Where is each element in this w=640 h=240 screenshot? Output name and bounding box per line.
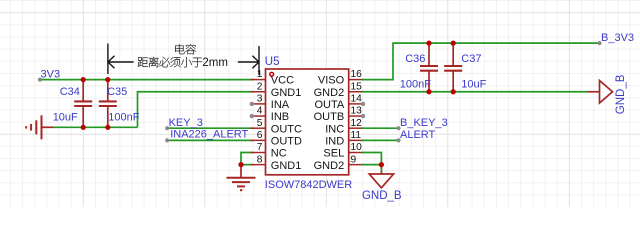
svg-text:VISO: VISO: [318, 75, 345, 87]
junction pin8/ground: [238, 162, 243, 167]
pin 16 (VISO) stub: [349, 79, 364, 81]
ground symbol (left, rotated): [26, 115, 53, 139]
svg-text:15: 15: [351, 81, 363, 92]
unconnected pin 13 dot: [361, 114, 365, 118]
svg-text:GND_B: GND_B: [362, 190, 402, 202]
svg-text:16: 16: [351, 69, 363, 80]
op-amp/isolator IC U5 body: [266, 69, 349, 175]
svg-text:INA226_ALERT: INA226_ALERT: [170, 129, 248, 141]
unconnected pin 3 dot: [250, 102, 254, 106]
pin 6 (OUTD) stub: [251, 139, 266, 141]
wire pin 7 NC loop to pin 8: [241, 153, 254, 165]
svg-text:7: 7: [257, 142, 263, 153]
svg-text:1: 1: [257, 69, 263, 80]
wire net KEY_3 to pin 5: [167, 127, 253, 129]
svg-text:C34: C34: [60, 86, 80, 98]
svg-text:2mm: 2mm: [202, 57, 228, 69]
svg-text:6: 6: [257, 130, 263, 141]
svg-text:NC: NC: [271, 148, 287, 160]
svg-text:SEL: SEL: [323, 148, 344, 160]
svg-text:10uF: 10uF: [461, 79, 486, 91]
svg-text:10uF: 10uF: [53, 111, 78, 123]
net label B_KEY_3 attach dot: [396, 126, 400, 130]
svg-text:C36: C36: [405, 53, 425, 65]
svg-text:13: 13: [351, 106, 363, 117]
svg-text:OUTD: OUTD: [271, 135, 302, 147]
net label B_3V3 attach dot: [597, 41, 601, 45]
pin 13 (OUTB) stub: [349, 115, 364, 117]
svg-text:GND1: GND1: [271, 87, 302, 99]
capacitor C37: [444, 43, 462, 92]
svg-text:GND2: GND2: [314, 87, 345, 99]
net label KEY_3 attach dot: [165, 126, 169, 130]
wire from GND rail up to pin 2 (GND1): [138, 92, 254, 128]
pin 3 (INA) stub: [251, 103, 266, 105]
dimension annotation arrows: [108, 44, 259, 76]
svg-text:IND: IND: [325, 135, 344, 147]
U5 pin-1 indicator: [270, 72, 274, 76]
svg-text:100nF: 100nF: [400, 79, 431, 91]
svg-text:GND_B: GND_B: [615, 74, 627, 114]
wire net B_KEY_3 to pin 12: [362, 127, 399, 129]
unconnected pin 4 dot: [250, 114, 254, 118]
junction C37 bottom: [451, 89, 456, 94]
capacitor C34: [74, 80, 92, 128]
svg-text:INC: INC: [325, 123, 344, 135]
wire net ALERT to pin 11: [362, 139, 399, 141]
svg-text:12: 12: [351, 118, 363, 129]
annotation text 电容: [175, 44, 196, 54]
wire ground rail under C34/C35: [52, 126, 138, 128]
pin 7 (NC) stub: [251, 152, 266, 154]
svg-text:8: 8: [257, 154, 263, 165]
svg-text:14: 14: [351, 94, 363, 105]
junction C37 top: [451, 41, 456, 46]
svg-text:B_3V3: B_3V3: [601, 32, 634, 44]
svg-text:4: 4: [257, 106, 263, 117]
annotation text 距离必须小于2mm: [138, 57, 203, 68]
svg-text:3: 3: [257, 94, 263, 105]
junction C34 top: [81, 77, 86, 82]
wire pin 16 VISO riser to B_3V3 rail: [362, 43, 600, 80]
svg-text:10: 10: [351, 142, 363, 153]
net label ALERT attach dot: [396, 138, 400, 142]
pin 15 (GND2) stub: [349, 91, 364, 93]
svg-text:U5: U5: [265, 56, 280, 68]
svg-text:5: 5: [257, 118, 263, 129]
svg-text:OUTC: OUTC: [271, 123, 302, 135]
pin 8 (GND1) stub: [251, 164, 266, 166]
svg-text:OUTA: OUTA: [314, 99, 344, 111]
svg-text:2: 2: [257, 81, 263, 92]
svg-text:3V3: 3V3: [41, 68, 61, 80]
pin 14 (OUTA) stub: [349, 103, 364, 105]
wire net INA226_ALERT to pin 6: [167, 139, 253, 141]
wire pin 15 GND2 rail to GND_B port: [362, 91, 588, 93]
junction C34 bottom: [81, 125, 86, 130]
pin 9 (GND2) stub: [349, 164, 364, 166]
svg-text:ALERT: ALERT: [400, 129, 436, 141]
svg-text:GND2: GND2: [314, 160, 345, 172]
svg-text:C37: C37: [461, 53, 481, 65]
junction C36 top: [426, 41, 431, 46]
pin 2 (GND1) stub: [251, 91, 266, 93]
wire pin 8 GND1: [241, 164, 254, 166]
svg-text:INA: INA: [271, 99, 290, 111]
svg-text:KEY_3: KEY_3: [169, 117, 203, 129]
pin 12 (INC) stub: [349, 127, 364, 129]
svg-text:VCC: VCC: [271, 75, 294, 87]
svg-text:C35: C35: [107, 86, 127, 98]
wire pin 10 SEL loop to pin 9: [362, 153, 381, 165]
junction C36 bottom: [426, 89, 431, 94]
pin 1 (VCC) stub: [251, 79, 266, 81]
junction C35 bottom: [105, 125, 110, 130]
unconnected pin 14 dot: [361, 102, 365, 106]
svg-text:100nF: 100nF: [108, 111, 139, 123]
ground port GND_B below pin 9: [362, 165, 402, 202]
svg-text:OUTB: OUTB: [314, 111, 345, 123]
svg-text:GND1: GND1: [271, 160, 302, 172]
ground symbol below pin 8: [227, 165, 256, 191]
svg-text:ISOW7842DWER: ISOW7842DWER: [265, 179, 352, 191]
pin 10 (SEL) stub: [349, 152, 364, 154]
svg-text:B_KEY_3: B_KEY_3: [400, 117, 448, 129]
pin 4 (INB) stub: [251, 115, 266, 117]
wire pin 9 GND2: [362, 164, 381, 166]
capacitor C35: [99, 80, 117, 128]
wire net 3V3 horizontal to pin 1: [40, 79, 254, 81]
svg-text:INB: INB: [271, 111, 289, 123]
svg-text:11: 11: [351, 130, 362, 141]
net label 3V3 attach dot: [38, 78, 42, 82]
junction C35 top: [105, 77, 110, 82]
pin 5 (OUTC) stub: [251, 127, 266, 129]
svg-text:9: 9: [351, 154, 357, 165]
junction pin9/GND_B: [379, 162, 384, 167]
pin 11 (IND) stub: [349, 139, 364, 141]
net label INA226_ALERT attach dot: [165, 138, 169, 142]
port GND_B (right): [588, 74, 627, 114]
capacitor C36: [420, 43, 438, 92]
